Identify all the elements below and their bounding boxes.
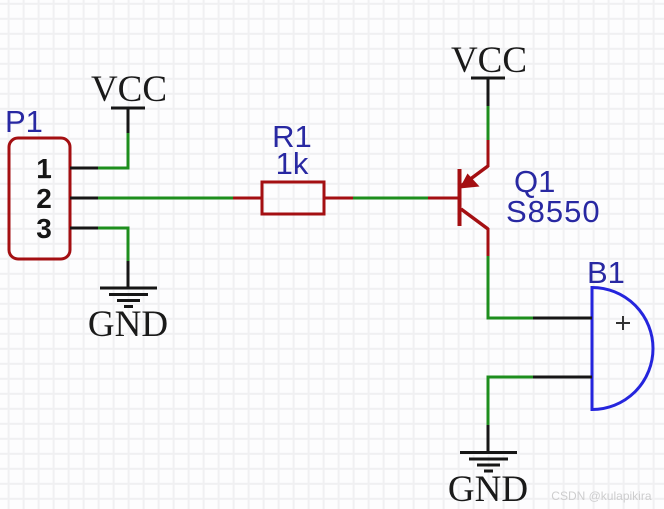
transistor Q1 emitter pin — [487, 140, 490, 167]
power VCC left stem — [127, 108, 130, 133]
transistor Q1 emitter diagonal — [461, 166, 488, 186]
wire Q1 collector to B1 — [488, 256, 533, 318]
transistor Q1 collector diagonal — [461, 209, 488, 229]
power VCC left bar — [111, 107, 145, 110]
svg-text:CSDN @kulapikira: CSDN @kulapikira — [551, 489, 652, 503]
wire R1 to Q1 base — [353, 197, 428, 200]
wire pin2 to R1 — [98, 197, 233, 200]
wire pin3 to GND — [98, 228, 128, 261]
pin 1 lead — [70, 167, 98, 170]
power VCC right stem — [487, 78, 490, 106]
svg-text:1: 1 — [36, 153, 52, 184]
transistor Q1 emitter arrow — [460, 174, 480, 189]
ground GND right stem — [487, 425, 490, 452]
buzzer B1 bottom pin — [533, 376, 592, 379]
svg-text:VCC: VCC — [91, 69, 167, 110]
buzzer B1 body — [592, 288, 653, 410]
wire B1 to GND — [488, 377, 533, 425]
svg-text:VCC: VCC — [451, 40, 527, 81]
ground GND left bars — [100, 288, 157, 307]
svg-text:S8550: S8550 — [506, 194, 601, 229]
svg-text:2: 2 — [36, 183, 52, 214]
power VCC right bar — [471, 77, 505, 80]
svg-text:P1: P1 — [5, 104, 43, 139]
wire VCC to Q1 emitter — [487, 106, 490, 140]
resistor R1 right lead — [324, 197, 353, 200]
resistor R1 body — [262, 182, 324, 214]
svg-text:B1: B1 — [587, 255, 625, 290]
pin 3 lead — [70, 227, 98, 230]
wire pin1 to VCC — [98, 133, 128, 168]
svg-text:3: 3 — [36, 213, 52, 244]
svg-text:GND: GND — [88, 304, 168, 345]
connector P1 body — [9, 138, 70, 259]
svg-text:GND: GND — [448, 469, 528, 509]
buzzer B1 top pin — [533, 317, 592, 320]
pin 2 lead — [70, 197, 98, 200]
transistor Q1 base lead — [428, 197, 458, 200]
ground GND right bars — [460, 453, 517, 472]
buzzer B1 plus sign — [616, 316, 630, 330]
resistor R1 left lead — [233, 197, 262, 200]
transistor Q1 base bar — [458, 169, 462, 226]
ground GND left stem — [127, 261, 130, 288]
svg-text:1k: 1k — [276, 146, 309, 181]
transistor Q1 collector pin — [487, 228, 490, 256]
